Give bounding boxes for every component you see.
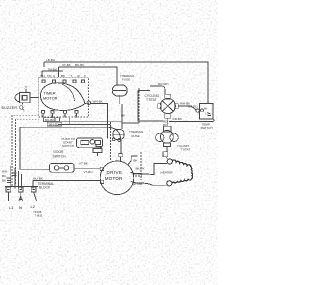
svg-text:MOTOR: MOTOR bbox=[105, 176, 123, 181]
svg-text:7-B11: 7-B11 bbox=[35, 214, 43, 218]
svg-text:T'STAT: T'STAT bbox=[146, 98, 157, 102]
svg-text:BK: BK bbox=[2, 179, 6, 183]
svg-text:FUSE: FUSE bbox=[122, 78, 130, 82]
svg-text:BU-BK: BU-BK bbox=[45, 118, 54, 122]
svg-text:T'STAT: T'STAT bbox=[181, 147, 191, 151]
svg-text:L2: L2 bbox=[31, 204, 36, 209]
svg-text:HI: HI bbox=[204, 107, 207, 111]
svg-text:FUSE: FUSE bbox=[132, 134, 140, 138]
svg-text:BU: BU bbox=[41, 74, 45, 78]
svg-text:BK: BK bbox=[61, 74, 65, 78]
svg-text:MOTOR: MOTOR bbox=[43, 95, 58, 100]
svg-text:DOOR: DOOR bbox=[54, 150, 65, 154]
svg-text:N: N bbox=[19, 205, 22, 210]
svg-text:VT-BU: VT-BU bbox=[84, 170, 93, 174]
svg-text:HEATER: HEATER bbox=[161, 171, 174, 175]
svg-text:DRIVE: DRIVE bbox=[107, 170, 123, 175]
svg-text:BK-PK: BK-PK bbox=[136, 167, 145, 171]
svg-text:RD-BK: RD-BK bbox=[173, 117, 182, 121]
svg-text:WH-BU: WH-BU bbox=[49, 122, 59, 126]
svg-text:BU: BU bbox=[2, 174, 6, 178]
svg-text:LB-BU: LB-BU bbox=[46, 58, 55, 62]
svg-text:BK: BK bbox=[134, 159, 138, 163]
svg-text:JT: JT bbox=[24, 86, 28, 90]
svg-text:BU-BK: BU-BK bbox=[34, 177, 43, 181]
svg-text:SWITCH: SWITCH bbox=[62, 144, 74, 148]
svg-text:TM: TM bbox=[47, 74, 52, 78]
svg-text:BUZZER: BUZZER bbox=[2, 106, 18, 110]
svg-text:BK-BU: BK-BU bbox=[75, 63, 84, 67]
svg-text:BLOCK: BLOCK bbox=[39, 185, 51, 189]
svg-text:BU-RD: BU-RD bbox=[188, 105, 198, 109]
svg-text:WH-BK: WH-BK bbox=[93, 100, 103, 104]
svg-text:VT-BK: VT-BK bbox=[62, 63, 71, 67]
svg-text:WH-BK: WH-BK bbox=[133, 182, 143, 186]
svg-text:T: T bbox=[71, 74, 73, 78]
svg-text:VT-BK: VT-BK bbox=[79, 161, 88, 165]
svg-text:RD-WH: RD-WH bbox=[158, 82, 169, 86]
svg-text:BU-OR: BU-OR bbox=[133, 172, 144, 176]
svg-text:SWITCH: SWITCH bbox=[53, 155, 67, 159]
svg-text:WH: WH bbox=[2, 170, 7, 174]
svg-text:L1: L1 bbox=[9, 205, 14, 210]
svg-text:BK: BK bbox=[121, 114, 125, 118]
svg-text:W: W bbox=[51, 113, 54, 117]
svg-text:SWITCH: SWITCH bbox=[201, 126, 213, 130]
